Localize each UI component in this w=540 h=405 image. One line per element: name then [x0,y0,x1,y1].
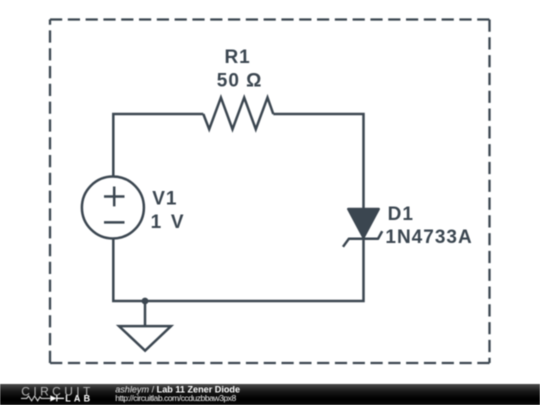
svg-text:50 Ω: 50 Ω [217,70,263,91]
resistor R1 [203,98,273,130]
svg-text:LAB: LAB [65,394,93,404]
footer bar [0,384,540,405]
voltage source V1 [82,177,144,239]
svg-text:1N4733A: 1N4733A [385,227,472,248]
zener diode D1 [343,209,382,247]
svg-text:R1: R1 [224,47,250,68]
wire bottom net: diode D1 cathode to V1 negative terminal [113,238,363,301]
node junction dot [142,298,149,305]
svg-text:D1: D1 [388,204,414,225]
ground [119,301,171,351]
CircuitLab logo [21,384,94,403]
wire top-left: V1 positive terminal to resistor R1 [113,114,203,177]
wire top-right: resistor R1 to diode D1 [273,114,363,210]
svg-text:V1: V1 [152,189,177,210]
svg-text:1 V: 1 V [151,212,186,233]
svg-text:http://circuitlab.com/ccduzbba: http://circuitlab.com/ccduzbbaw3px8 [115,393,236,403]
